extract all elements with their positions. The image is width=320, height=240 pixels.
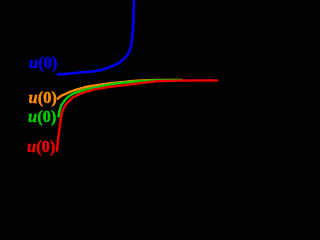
svg-text:u(0): u(0) (29, 88, 57, 107)
svg-text:u(0): u(0) (29, 53, 57, 72)
curve blue (blow-up solution) (58, 0, 134, 74)
curve red (57, 80, 217, 150)
curve green (59, 80, 183, 117)
svg-text:u(0): u(0) (28, 107, 56, 126)
curve orange (58, 80, 178, 99)
svg-text:u(0): u(0) (27, 137, 55, 156)
